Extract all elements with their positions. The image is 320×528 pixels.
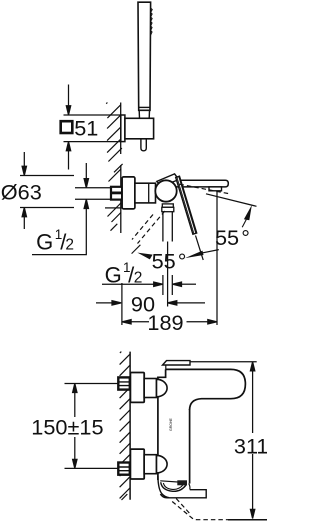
dimension 189 [122, 320, 217, 324]
escutcheon Ø63 [122, 177, 135, 209]
svg-text:Ø63: Ø63 [1, 180, 42, 205]
aerator (front view) [177, 480, 187, 485]
union center line bottom [65, 467, 120, 469]
faucet body (front view) [158, 369, 190, 483]
arc arrow lower right [203, 250, 219, 253]
svg-text:G: G [36, 229, 53, 254]
svg-text:2: 2 [134, 269, 143, 286]
holder body [125, 118, 154, 139]
dimension 311 [190, 362, 267, 520]
extension line wall (90/189) [121, 283, 123, 325]
cartridge housing circle [155, 180, 176, 201]
outlet tab [160, 490, 206, 498]
label G1/2 lower [105, 260, 143, 287]
lever extension line [196, 236, 204, 261]
extension line outlet center [167, 242, 169, 307]
dashed lever-up ray [180, 184, 229, 193]
stub top union [118, 377, 130, 389]
dimension 150±15 [73, 384, 77, 469]
svg-text:189: 189 [147, 310, 183, 335]
svg-text:2: 2 [65, 237, 74, 254]
extension line spout tip [216, 191, 218, 325]
hand shower cone [139, 110, 149, 118]
spout mouth (front view) [158, 476, 169, 498]
shower outlet tube [163, 212, 172, 242]
svg-text:311: 311 [234, 434, 267, 459]
wall hatching (front view) [120, 352, 131, 500]
arc arrow lower left [137, 253, 152, 260]
hand shower handle [138, 2, 151, 110]
G1/2 nipple (side view) [111, 187, 122, 200]
dashed water stream [176, 499, 190, 515]
wall hatching (side view) [108, 164, 123, 231]
dome top union [157, 379, 168, 397]
lever top plate [163, 361, 191, 365]
holder flange [121, 115, 125, 142]
svg-text:150±15: 150±15 [31, 414, 103, 439]
wall hatching (top view) [106, 103, 122, 162]
svg-text:°: ° [241, 225, 250, 250]
flange bottom union [130, 449, 144, 479]
wall line (side view) [120, 165, 122, 233]
wall line (front view) [129, 352, 131, 500]
lever cap wedge [157, 174, 179, 186]
union center line top [65, 383, 120, 385]
nut top union [144, 379, 156, 398]
flange top union [130, 373, 144, 403]
dome bottom union [157, 455, 168, 473]
dimension G1/2 outlet [102, 275, 196, 295]
aerator (side view) [209, 187, 222, 191]
svg-text:55: 55 [152, 249, 176, 274]
svg-text:55: 55 [215, 225, 239, 250]
hand shower nut [139, 106, 150, 108]
dashed lever-down ray [138, 211, 165, 244]
arc arrow upper 55 [242, 220, 246, 228]
svg-text:G: G [105, 262, 122, 287]
svg-text:°: ° [178, 249, 187, 274]
lever (solid position) [176, 176, 197, 234]
dimension square-51 [64, 85, 121, 170]
nut bottom union [144, 455, 156, 474]
lever (front view) [166, 369, 246, 410]
dimension G1/2 nipple [32, 163, 111, 255]
svg-text:51: 51 [74, 115, 98, 140]
shower outlet connector [162, 204, 174, 212]
svg-text:GROHE: GROHE [169, 418, 173, 432]
spout [177, 180, 229, 187]
body tube (side view) [135, 183, 156, 203]
stub bottom union [118, 463, 130, 475]
hose stub [141, 139, 146, 151]
dimension Ø63 [20, 152, 121, 229]
dimension 90 [96, 301, 205, 305]
angle ray upper [206, 194, 257, 207]
spray face teeth [151, 8, 153, 35]
wall line (top view) [120, 103, 122, 155]
label G1/2 upper [36, 227, 74, 254]
